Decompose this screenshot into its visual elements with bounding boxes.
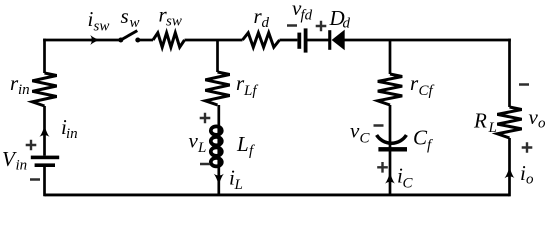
switch Sw — [118, 31, 140, 43]
resistor r_Lf — [205, 72, 229, 105]
battery V_in bars — [31, 156, 59, 167]
capacitor C_f flat plate — [378, 147, 407, 151]
wire diode to top-right corner — [345, 39, 511, 42]
resistor R_L — [497, 107, 521, 138]
minus sign v_C — [374, 124, 384, 127]
minus sign V_in — [30, 178, 40, 181]
inductor L_f coil — [211, 126, 222, 166]
arrow i_in — [39, 126, 49, 137]
plus sign v_fd — [316, 21, 327, 32]
wire switch to r_sw — [138, 39, 153, 42]
resistor r_in — [32, 73, 56, 106]
arrow i_sw — [90, 35, 99, 45]
wire r_sw to r_d — [185, 39, 243, 42]
resistor r_Cf — [378, 74, 402, 105]
plus sign V_in — [26, 140, 37, 151]
wire top-left down to r_in — [43, 39, 46, 73]
capacitor C_f curved plate — [377, 135, 407, 143]
diode D_d — [328, 30, 345, 51]
arrow i_C — [385, 173, 395, 184]
wire top-left segment — [43, 39, 121, 42]
wire r_Cf to capacitor — [389, 105, 392, 148]
wire node A down to r_Lf — [216, 40, 219, 72]
plus sign v_o — [522, 142, 533, 153]
plus sign v_C — [377, 162, 388, 173]
arrow i_o — [504, 167, 514, 178]
plus sign v_L — [200, 113, 211, 124]
resistor r_d — [243, 33, 280, 47]
voltage source v_fd bars — [297, 28, 307, 52]
minus sign v_fd — [287, 24, 297, 27]
minus sign v_o — [519, 83, 529, 86]
wire r_d to v_fd — [280, 39, 298, 42]
resistor r_sw — [153, 33, 185, 47]
wire bottom — [45, 193, 510, 196]
wire node B down to r_Cf — [389, 40, 392, 74]
minus sign v_L — [200, 163, 210, 166]
wire V_in to bottom — [43, 167, 46, 196]
wire v_fd to diode — [308, 39, 330, 42]
wire top-right down to R_L — [508, 39, 511, 107]
wire R_L to bottom — [508, 138, 511, 196]
wire capacitor to bottom — [389, 152, 392, 195]
wire r_in to V_in — [43, 106, 46, 156]
arrow i_L — [214, 174, 224, 185]
wire r_Lf to inductor and down to bottom — [217, 105, 220, 195]
